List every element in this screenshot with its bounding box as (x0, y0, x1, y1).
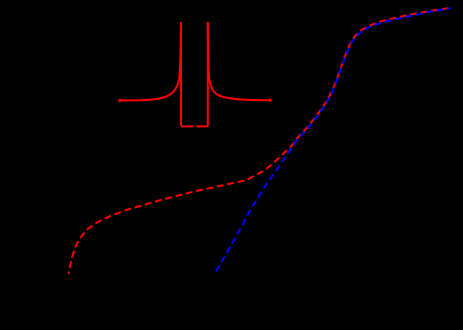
inset right pole (207, 22, 209, 126)
inset bottom clipped segment left (181, 125, 193, 127)
inset bottom clipped segment right (196, 125, 208, 128)
inset left end marker (118, 99, 121, 102)
inset right end marker (268, 99, 271, 102)
red dashed curve (69, 8, 452, 274)
inset right branch (208, 22, 270, 100)
inset left branch (120, 22, 181, 100)
inset left pole (180, 22, 182, 126)
blue dashed curve (216, 8, 451, 272)
